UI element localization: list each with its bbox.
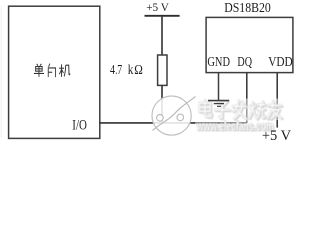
svg-text:DQ: DQ xyxy=(237,55,252,70)
wire I/O to DQ (node DQ net) xyxy=(100,122,247,124)
watermark wash xyxy=(194,99,284,121)
ground symbol xyxy=(208,101,229,107)
svg-text:DS18B20: DS18B20 xyxy=(224,1,271,16)
svg-text:4: 4 xyxy=(110,63,115,78)
片 xyxy=(48,64,55,78)
svg-text:7: 7 xyxy=(117,63,122,78)
wire VDD pin down xyxy=(276,73,278,128)
svg-text:+5 V: +5 V xyxy=(262,128,292,143)
单 xyxy=(34,64,44,77)
watermark logo (elecfans) xyxy=(152,96,196,135)
机 xyxy=(59,64,70,76)
svg-text:Ω: Ω xyxy=(134,63,143,78)
wire resistor to I/O net xyxy=(161,85,163,123)
wire +5V bar to resistor xyxy=(161,17,163,55)
svg-text:+5 V: +5 V xyxy=(146,0,169,14)
MCU label 单片机 (hand-drawn glyphs) xyxy=(34,64,70,78)
wire GND pin down xyxy=(218,73,220,100)
svg-text:VDD: VDD xyxy=(268,55,293,70)
svg-text:GND: GND xyxy=(207,55,230,70)
wire DQ pin down to net xyxy=(246,73,248,123)
DS18B20 U2 box xyxy=(206,17,293,72)
MCU U1 box 单片机 xyxy=(9,6,100,138)
scan artifact left edge xyxy=(1,5,2,138)
+5V supply bar xyxy=(145,15,180,17)
resistor R1 body xyxy=(158,55,167,85)
svg-text:I/O: I/O xyxy=(72,118,87,134)
svg-text:k: k xyxy=(128,63,134,78)
